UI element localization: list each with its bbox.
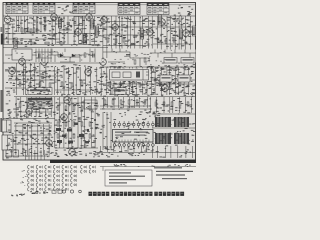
left margin smudge 2 [0,27,2,32]
transistor V12 [147,65,154,75]
transistor V8 [9,66,16,76]
transistor V3 [75,27,82,37]
wire [17,63,189,95]
wire [150,50,196,58]
wire [5,21,72,144]
winding table 4 [118,3,140,15]
tuning capacitor block C1 [74,17,83,26]
transistor V22 [19,57,26,67]
transistor V4 [112,22,119,32]
shielded module box M1 [108,69,151,82]
winding table 5 [147,3,169,15]
transistor V14 [26,106,33,116]
label box IFT1 [164,58,177,64]
margins [0,0,200,200]
label box IFT2 [181,58,194,64]
wire [108,49,158,67]
output transformer T1 [2,120,11,132]
label specks top [5,17,195,47]
open region right [150,50,196,63]
transistor V21 [69,147,76,157]
corner caption text [11,194,25,197]
diode D2 [72,54,75,57]
open band labels [8,51,94,63]
IC U1 body [113,130,154,143]
transistor V2 [51,12,58,22]
capacitor C20 [39,54,41,58]
open band labels 3 [112,50,194,65]
transistor V9 [41,57,48,67]
IF transformer B7 [90,19,93,29]
FM transformer module Z2 [174,117,189,127]
transistor V13 [162,83,169,93]
open region left [5,49,102,63]
note text right [154,167,193,179]
bottom thick border band [50,160,196,163]
capacitor C21 [93,54,95,58]
transistor V20 [46,138,53,148]
background paper [0,0,200,200]
transistor V16 [94,52,101,62]
antenna coil L1 [1,34,4,45]
diode D1 [60,54,63,57]
transistor V5 [147,27,154,37]
note area text 2 [152,164,191,167]
resistor R62 [144,58,146,62]
resistor group R [19,18,189,138]
FM transformer module Z1 [155,117,171,127]
label specks low [6,98,196,157]
FM transformer module Z4 [174,133,189,144]
transistor V18 [159,17,166,27]
label box P2 [178,75,190,82]
wire [26,150,45,160]
FM transformer module Z3 [155,133,171,144]
wire [4,16,190,58]
resistor R61 [84,53,86,57]
speaker transformer T2 [2,135,13,150]
wire [5,49,95,63]
label specks topright [174,5,194,16]
margin note [197,58,200,61]
IF transformer B9 [14,38,17,48]
legend bottom text [30,191,48,194]
bandswitch box S1 [12,49,32,60]
open band labels 2 [111,50,152,65]
main top bus wire [3,15,195,17]
left margin smudge [0,90,2,112]
wire [32,49,95,63]
transistor V1 [4,15,11,25]
label specks mid [5,64,195,96]
IF transformer B4 [140,29,143,39]
IF transformer B2 [83,34,86,44]
wire [103,112,111,150]
legend symbol table [28,165,96,191]
transistor V7 [86,12,93,22]
resistor R60 [134,60,136,64]
label box P1 [160,75,172,82]
winding table 3 [73,2,95,14]
junction dots [49,119,96,132]
scan wash [4,3,196,160]
label box AGC [112,88,126,95]
wire [3,22,195,157]
open region [108,49,158,67]
winding table 1 [6,2,28,14]
note area text [114,164,140,167]
label box IF amp [28,98,52,109]
legend row labels [20,170,27,185]
label specks right mid [100,65,196,96]
label box detector [28,88,52,95]
left margin smudge 3 [0,118,2,132]
transistor V23 [64,95,71,105]
IC U1 top pins [113,121,154,128]
legend bottom circles [62,190,81,193]
caption title text [89,192,185,196]
transistor V11 [100,57,107,67]
IF transformer B1 [58,18,61,28]
transistor V6 [183,28,190,38]
label specks tablegap [58,5,77,14]
terminal block X1 [6,150,19,157]
lower divider wire [100,167,196,172]
capacitor C22 [126,55,130,57]
IF transformer B8 [158,15,161,25]
IC U1 bottom pins [113,142,154,149]
wire [16,97,193,158]
winding table 2 [33,2,55,14]
resistor R63 [18,42,64,44]
transistor V17 [101,15,108,25]
IF transformer B6 [192,26,195,36]
IF transformer B3 [95,26,98,36]
schematic border frame [3,3,196,161]
label specks left low [6,98,102,158]
filter box F1 [84,100,97,109]
legend bottom symbols [52,190,62,193]
output stage resistors R100 [56,123,89,144]
top connecting wire [3,4,195,6]
IF transformer B5 [179,29,182,39]
transistor V10 [85,67,92,77]
note box [105,170,152,186]
transistor V15 [61,112,68,122]
